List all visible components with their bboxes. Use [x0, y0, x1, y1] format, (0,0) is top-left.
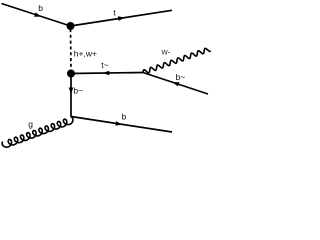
vertex dot 2 (h+ - t~ - b~ vertex): [67, 70, 75, 78]
svg-text:t~: t~: [101, 60, 108, 70]
propagator h+,w+ dashed scalar line: [70, 29, 73, 71]
wire outgoing b~ line (right): [143, 73, 208, 95]
vertex dot 1 (b-t-h+ vertex): [67, 22, 75, 30]
arrow on right b~ line (pointing toward vertex): [172, 82, 179, 86]
wire t~ internal line: [71, 73, 143, 74]
arrow on t~ line (pointing left): [103, 71, 110, 76]
gluon g curly line: [2, 117, 73, 147]
svg-text:h+,w+: h+,w+: [74, 49, 97, 59]
svg-text:b: b: [38, 3, 43, 13]
arrow on incoming b line: [34, 12, 41, 16]
arrow on vertical b~ (pointing down): [69, 88, 74, 95]
arrow on t line: [118, 16, 125, 21]
svg-text:b: b: [122, 112, 127, 122]
wire outgoing b quark line (bottom): [71, 117, 172, 133]
boson w- wavy line: [143, 48, 211, 72]
svg-text:b~: b~: [73, 85, 83, 95]
svg-text:g: g: [28, 119, 33, 129]
arrow on bottom b line: [115, 121, 122, 126]
wire outgoing t quark line: [71, 10, 173, 26]
wire incoming b quark line: [2, 4, 71, 27]
svg-text:b~: b~: [176, 72, 186, 82]
svg-text:w-: w-: [161, 46, 171, 56]
wire internal b~ vertical line: [70, 74, 72, 117]
